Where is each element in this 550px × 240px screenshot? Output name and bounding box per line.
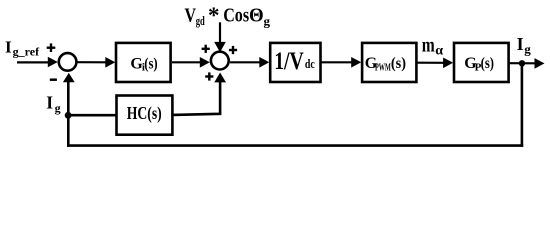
svg-text:1/V: 1/V [274,48,304,75]
svg-text:Θ: Θ [249,4,264,26]
svg-text:HC(s): HC(s) [127,103,162,124]
svg-text:*: * [208,3,220,28]
svg-text:I: I [517,34,524,54]
svg-text:α: α [435,43,443,58]
svg-text:gd: gd [196,13,206,28]
svg-text:g: g [55,101,61,115]
svg-text:g: g [524,42,531,57]
svg-text:PWM: PWM [375,62,391,73]
svg-text:I: I [46,92,53,112]
svg-text:dc: dc [305,56,315,71]
svg-text:(s): (s) [144,55,158,72]
svg-text:V: V [185,4,197,26]
svg-text:(s): (s) [391,55,406,72]
svg-text:m: m [422,35,435,57]
svg-text:g_ref: g_ref [13,47,40,59]
svg-text:I: I [5,37,12,56]
svg-text:g: g [264,14,271,29]
svg-text:(s): (s) [481,55,494,72]
svg-text:Cos: Cos [223,4,249,26]
